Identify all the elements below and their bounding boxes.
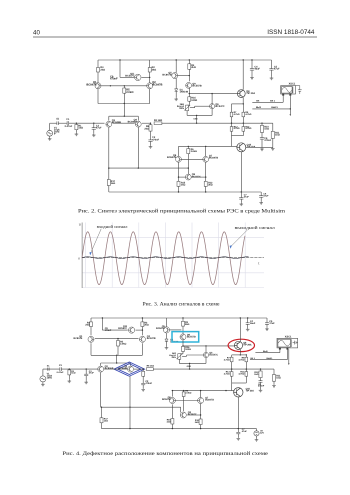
transistor Q3 fig4: [98, 366, 104, 372]
svg-text:47uF: 47uF: [274, 68, 280, 71]
wire: [240, 152, 242, 193]
capacitor C8 series: [57, 121, 59, 125]
label Q2: [152, 81, 162, 86]
label Q6b: [167, 154, 177, 159]
wire: [187, 146, 189, 148]
svg-text:BC847B: BC847B: [209, 157, 218, 160]
junction: [189, 59, 190, 60]
label C5 value: [274, 65, 280, 70]
wire: [245, 362, 247, 372]
wire: [211, 94, 213, 104]
defect marker blue diamond: [114, 362, 145, 376]
wire: [85, 369, 87, 374]
svg-text:0°: 0°: [54, 133, 56, 136]
source V2 fig4: [254, 431, 259, 436]
label C6 fig4: [258, 383, 265, 388]
junction: [129, 407, 130, 408]
wire Q3 emitter drop fig4: [100, 373, 102, 408]
label Q5: [162, 72, 172, 77]
wire: [187, 354, 204, 356]
label C8b value: [263, 193, 269, 198]
label R2 fig4: [144, 322, 149, 327]
label R10 fig4: [254, 371, 259, 376]
svg-text:470nF: 470nF: [152, 138, 159, 141]
wire: [205, 358, 207, 364]
junction: [150, 123, 151, 124]
transistor Q7b fig4: [198, 398, 204, 404]
resistor R17: [107, 180, 110, 186]
wire: [141, 343, 143, 355]
resistor R10 fig4: [259, 371, 262, 378]
svg-text:TIP 30A: TIP 30A: [246, 389, 255, 392]
wire: [175, 91, 177, 97]
wire: [187, 104, 189, 106]
wire scope B fig4: [250, 359, 287, 361]
wire: [182, 318, 184, 321]
label R8s fig4: [147, 365, 155, 368]
junction: [251, 59, 252, 60]
wire: [205, 186, 207, 192]
ground V1 fig4: [41, 383, 45, 386]
output signal sine curve: [82, 232, 245, 285]
resistor R16 fig4: [182, 346, 185, 351]
wire: [178, 146, 180, 156]
resistor R17 fig4: [100, 418, 103, 423]
wire bias feeder: [231, 104, 233, 146]
wire: [166, 333, 168, 339]
capacitor C1: [67, 121, 69, 125]
wire: [179, 353, 183, 355]
wire: [150, 123, 152, 125]
wire: [171, 424, 173, 429]
label Q9p: [192, 82, 201, 87]
svg-text:1kΩ: 1kΩ: [104, 420, 108, 423]
wire: [271, 60, 273, 69]
svg-text:1N4148: 1N4148: [180, 91, 189, 94]
svg-text:2kΩ: 2kΩ: [144, 127, 149, 130]
wire feedback line: [109, 167, 189, 169]
junction: [124, 103, 125, 104]
wire: [242, 117, 244, 127]
svg-text:GND: GND: [193, 119, 198, 121]
svg-text:Рис. 2. Синтез электрической п: Рис. 2. Синтез электрической принципиаль…: [78, 208, 286, 215]
net label VX: [256, 100, 259, 103]
defect marker cyan rectangle: [172, 332, 199, 342]
wire: [211, 109, 213, 116]
label pot fig4: [169, 352, 176, 359]
resistor R7 fig4: [230, 357, 233, 362]
label Q10 TIP: [247, 143, 256, 148]
transistor Q8 TIP29 fig4: [234, 341, 242, 349]
wire: [104, 368, 127, 370]
ground C8b: [259, 201, 263, 204]
ground C4: [250, 77, 254, 80]
wire: [273, 381, 275, 384]
wire: [245, 355, 247, 357]
svg-text:1kHz: 1kHz: [47, 377, 53, 380]
resistor R15 fig4: [171, 419, 174, 425]
wire: [272, 123, 274, 131]
wire: [178, 186, 180, 192]
wire: [242, 97, 244, 104]
capacitor C4 fig4: [246, 323, 250, 325]
wire scope pin2: [289, 94, 291, 96]
net label VX1: [256, 106, 262, 109]
svg-text:4.7kΩ: 4.7kΩ: [224, 358, 230, 361]
resistor R13 fig4: [230, 372, 233, 377]
label C2 value: [152, 136, 159, 141]
label Q8b fig4: [188, 411, 197, 416]
junction: [260, 368, 261, 369]
wire: [101, 423, 103, 429]
scope probe clip: [296, 86, 302, 94]
scope probe clip fig4: [293, 341, 298, 345]
wire: [247, 318, 249, 323]
resistor R9b: [242, 112, 245, 117]
junction: [225, 390, 226, 391]
transistor Q2 fig4: [139, 336, 145, 342]
resistor R4 fig4: [90, 322, 93, 327]
wire: [251, 60, 253, 69]
svg-text:40: 40: [33, 29, 40, 36]
label Q11 fig4: [118, 325, 127, 330]
svg-text:BC557C: BC557C: [125, 74, 134, 77]
svg-text:1kΩ: 1kΩ: [276, 377, 281, 380]
svg-text:12V: 12V: [260, 432, 264, 435]
wire: [205, 346, 207, 353]
source V1: [47, 130, 53, 136]
junction: [142, 317, 143, 318]
resistor R3 fig4: [182, 321, 185, 326]
wire bias top fig4: [232, 354, 247, 356]
ground C5 fig4: [265, 328, 269, 331]
transistor Q8b fig4: [180, 412, 186, 418]
wire: [186, 111, 188, 116]
junction: [189, 75, 190, 76]
label Q1: [86, 81, 97, 86]
transistor Q6: [210, 104, 215, 109]
svg-text:0: 0: [78, 256, 80, 260]
junction: [69, 368, 70, 369]
wire VCC top rail fig4: [91, 317, 267, 319]
svg-text:47uF: 47uF: [269, 322, 275, 325]
svg-text:2kΩ: 2kΩ: [100, 68, 105, 71]
wire: [239, 349, 241, 355]
transistor Q7b: [203, 156, 209, 162]
capacitor C7 fig4: [236, 432, 240, 434]
label R4 value: [100, 66, 105, 71]
wire emitter rail: [98, 103, 150, 105]
junction: [188, 146, 189, 147]
svg-text:выходной сигнал: выходной сигнал: [235, 225, 275, 230]
oscilloscope XSC1: [281, 86, 296, 96]
defect marker red ellipse: [228, 339, 254, 351]
label R9 pot: [177, 103, 185, 110]
wire: [205, 162, 207, 181]
label C9: [110, 75, 118, 80]
wire: [261, 132, 263, 137]
label C3 fig4: [89, 370, 95, 375]
capacitor C2: [148, 140, 152, 142]
wire: [186, 355, 188, 356]
junction: [108, 167, 109, 168]
wire: [149, 60, 151, 68]
junction: [116, 355, 117, 356]
svg-text:ISSN 1818-0744: ISSN 1818-0744: [267, 29, 315, 36]
label Q1 fig4: [74, 335, 83, 340]
wire: [100, 363, 102, 366]
arrowhead net stub: [290, 114, 292, 116]
wire: [282, 96, 284, 103]
svg-text:2.0kΩ: 2.0kΩ: [126, 91, 134, 94]
resistor R13: [230, 127, 233, 132]
wire: [141, 327, 143, 336]
svg-text:1kΩ: 1kΩ: [167, 420, 171, 423]
label Q5 fig4: [156, 325, 165, 330]
ground R11 fig4: [272, 384, 276, 387]
resistor R3: [188, 64, 191, 70]
junction: [246, 368, 247, 369]
label Q8 fig4: [243, 342, 252, 347]
junction: [149, 77, 150, 78]
label C4 value: [254, 65, 260, 70]
ground R1 fig4: [68, 380, 72, 383]
svg-text:47uF: 47uF: [244, 195, 250, 198]
wire feedback line fig4: [102, 406, 181, 408]
wire scope pin2 fig4: [286, 348, 288, 350]
wire: [102, 329, 127, 331]
svg-text:2kΩ: 2kΩ: [152, 68, 157, 71]
wire: [150, 131, 152, 140]
ground R1: [75, 133, 79, 136]
wire: [187, 414, 200, 416]
label C7 value: [244, 193, 250, 198]
capacitor C4: [250, 69, 254, 71]
wire: [188, 101, 190, 105]
svg-text:1kΩ: 1kΩ: [264, 128, 269, 131]
label Q6b fig4: [162, 396, 171, 401]
label Q7b fig4: [205, 396, 214, 401]
svg-text:BC547C: BC547C: [209, 354, 218, 357]
wire: [49, 123, 51, 130]
ground C3 fig4: [84, 381, 88, 384]
wire scope drop fig4: [288, 349, 290, 363]
svg-text:50%: 50%: [172, 356, 176, 359]
wire: [93, 123, 95, 128]
svg-text:R2 1kΩ: R2 1kΩ: [154, 119, 162, 122]
svg-text:BC846B: BC846B: [118, 367, 127, 370]
svg-text:50%: 50%: [179, 107, 184, 110]
junction: [129, 428, 130, 429]
svg-text:ВЫХ1: ВЫХ1: [267, 357, 274, 360]
svg-text:2kΩ: 2kΩ: [195, 421, 199, 424]
wire: [97, 60, 99, 68]
net label fig4 a: [263, 350, 268, 353]
resistor R6 fig4: [182, 392, 185, 397]
wire bottom rail fig4: [102, 428, 257, 430]
label C7 fig4: [242, 428, 248, 433]
wire: [93, 129, 95, 134]
wire emitter tie: [187, 114, 212, 116]
svg-text:ВЫХ1: ВЫХ1: [271, 106, 278, 109]
label R11 value: [275, 132, 280, 137]
junction: [290, 108, 291, 109]
ground C5: [270, 77, 274, 80]
svg-text:100Ω: 100Ω: [191, 99, 197, 102]
wire: [286, 349, 288, 359]
label C1: [66, 118, 70, 121]
wire bias bottom fig4: [232, 382, 247, 384]
resistor R8: [149, 125, 152, 131]
svg-text:BC846B: BC846B: [112, 121, 121, 124]
svg-text:u: u: [79, 222, 81, 226]
svg-text:TIP 29A: TIP 29A: [243, 344, 252, 347]
resistor R6: [187, 149, 190, 154]
label R6 fig4: [185, 389, 191, 394]
wire: [200, 425, 202, 429]
wire bias bottom: [232, 135, 244, 137]
svg-text:ВЫХ: ВЫХ: [256, 106, 262, 109]
wire: [142, 376, 144, 383]
wire: [119, 60, 121, 77]
wire: [246, 146, 273, 148]
svg-text:470nF: 470nF: [110, 78, 118, 81]
wire scope pin1: [282, 94, 284, 96]
wire: [170, 329, 181, 331]
junction: [261, 123, 262, 124]
junction: [196, 115, 197, 116]
label Q11: [125, 72, 135, 77]
svg-text:t: t: [258, 262, 259, 266]
svg-text:BC847B: BC847B: [86, 84, 96, 87]
wire: [175, 60, 177, 73]
wire: [178, 359, 180, 363]
resistor R5: [123, 88, 126, 93]
resistor R2 fig4: [141, 322, 144, 327]
wire: [188, 88, 190, 97]
junction: [205, 345, 206, 346]
wire: [171, 391, 173, 397]
label Q9 fig4: [187, 333, 196, 338]
wire: [239, 318, 241, 342]
svg-text:входной сигнал: входной сигнал: [97, 224, 128, 229]
svg-text:46uF: 46uF: [254, 68, 260, 71]
wire Q3 emitter drop: [108, 127, 110, 179]
junction: [182, 345, 183, 346]
transistor Q6b fig4: [169, 398, 175, 404]
resistor R1 fig4: [68, 370, 71, 375]
label R12 fig4: [195, 419, 200, 424]
svg-text:1kΩ: 1kΩ: [71, 372, 75, 375]
wire main bus: [162, 122, 273, 124]
junction: [240, 354, 241, 355]
svg-text:BC557B: BC557B: [192, 85, 201, 88]
label Q8 TIP: [246, 90, 255, 95]
junction: [205, 191, 206, 192]
wire: [142, 369, 144, 371]
junction: [183, 390, 184, 391]
wire scope pin1 fig4: [279, 348, 281, 350]
junction: [243, 123, 244, 124]
junction: [189, 363, 190, 364]
svg-text:2kΩ: 2kΩ: [85, 324, 90, 327]
label R15b value: [181, 181, 186, 186]
wire collector link: [101, 85, 147, 87]
svg-text:4.7kΩ: 4.7kΩ: [224, 372, 230, 375]
pointer arrow output: [230, 245, 232, 248]
svg-text:470nF: 470nF: [258, 385, 265, 388]
wire: [134, 368, 143, 370]
wire: [260, 192, 262, 196]
label D1: [180, 88, 189, 93]
label R15 fig4: [167, 418, 172, 423]
label R13 value: [234, 125, 240, 130]
svg-text:Рис. 4. Дефектное расположение: Рис. 4. Дефектное расположение компонент…: [62, 450, 268, 457]
svg-text:2.0kΩ: 2.0kΩ: [191, 150, 197, 153]
wire VCC top rail: [98, 59, 272, 61]
plot gridlines: [82, 223, 264, 288]
wire: [136, 329, 143, 331]
header rule: [33, 36, 317, 38]
potentiometer R9 fig4: [176, 354, 182, 360]
net label VYX1: [271, 106, 278, 109]
wire: [137, 116, 139, 120]
wire collector link stage3 fig4: [175, 400, 197, 402]
capacitor C5: [269, 69, 273, 71]
oscilloscope XSC1 fig4: [277, 338, 298, 349]
resistor R12: [204, 181, 207, 186]
transistor Q6b: [176, 156, 182, 162]
wire: [150, 141, 152, 145]
resistor R10: [260, 125, 263, 132]
wire: [101, 318, 103, 330]
junction: [246, 354, 247, 355]
svg-text:2kΩ: 2kΩ: [208, 183, 213, 186]
svg-text:BC547C: BC547C: [215, 105, 224, 108]
junction: [231, 123, 232, 124]
pointer line input: [91, 229, 102, 253]
svg-text:470nF: 470nF: [105, 329, 112, 332]
label XSC1 fig4: [285, 335, 292, 338]
svg-text:BC557B: BC557B: [187, 335, 196, 338]
wire: [117, 346, 119, 355]
label C3 value: [96, 124, 102, 129]
svg-text:BC847B: BC847B: [162, 398, 171, 401]
transistor Q8b: [185, 174, 191, 180]
wire: [142, 122, 151, 124]
wire: [256, 429, 258, 431]
wire gnd drop: [196, 115, 198, 123]
wire: [200, 391, 202, 398]
wire input bus fig4: [43, 368, 60, 370]
wire: [245, 376, 247, 383]
junction: [200, 428, 201, 429]
svg-text:0.47uF: 0.47uF: [65, 125, 73, 128]
svg-text:47uF: 47uF: [96, 126, 102, 129]
wire scope A fig4: [255, 352, 280, 354]
svg-text:1kΩ: 1kΩ: [254, 373, 258, 376]
label R14 value: [245, 125, 251, 130]
wire: [171, 404, 173, 418]
label XSC1: [289, 83, 296, 86]
capacitor C7: [239, 198, 243, 200]
wire bias top: [232, 103, 244, 105]
label R1 value: [78, 124, 83, 129]
capacitor C1 fig4: [60, 367, 62, 371]
wire: [123, 93, 125, 103]
potentiometer R9: [184, 105, 190, 111]
wire Q4 emitter drop: [137, 127, 139, 168]
